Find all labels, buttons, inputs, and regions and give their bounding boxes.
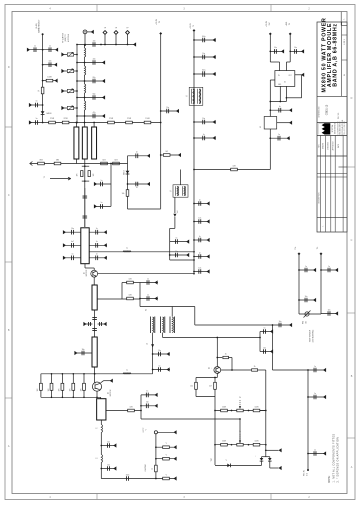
capacitor C30 stub [141, 394, 158, 396]
svg-text:1n: 1n [136, 187, 138, 189]
inductor L5 [123, 251, 131, 252]
wire q1 emitter [93, 277, 95, 285]
svg-text:10n: 10n [166, 107, 169, 109]
wire z6 bottom [94, 367, 96, 374]
resistor R17 [128, 409, 135, 412]
wire u1 bottom pin 2 [285, 86, 287, 101]
supply terminal 4 [289, 33, 292, 36]
capacitor C29 stub [153, 369, 170, 371]
svg-text:1n: 1n [314, 366, 316, 368]
capacitor C14 stub [95, 205, 112, 207]
node dot tr2 [248, 410, 250, 412]
capacitor C33 stub [101, 468, 116, 470]
wire bottom row [30, 122, 77, 124]
svg-text:(ON HEATSINK): (ON HEATSINK) [311, 329, 314, 342]
wire z5 tap [97, 298, 140, 300]
border zone divider right 3 [347, 437, 355, 439]
svg-text:2k: 2k [254, 366, 256, 368]
resistor R24 [252, 369, 258, 371]
svg-text:D: D [351, 97, 353, 100]
svg-text:1n: 1n [199, 236, 201, 238]
svg-text:1n: 1n [278, 134, 280, 136]
ground G6 [29, 120, 32, 124]
svg-text:L4: L4 [147, 343, 149, 345]
wire t1 step [174, 217, 176, 228]
wire q3 base row [221, 369, 252, 371]
wire interstage step down [194, 307, 196, 326]
wire z2 bottom link [84, 159, 86, 227]
title block divider partial [339, 166, 348, 168]
capacitor C44 stub [270, 50, 284, 52]
svg-text:TEMP SENSOR: TEMP SENSOR [310, 329, 312, 342]
wire comb to sense [162, 333, 164, 338]
capacitor C41 stub [170, 254, 189, 256]
wire bias sense [163, 337, 260, 339]
resistor R7 [144, 121, 151, 124]
svg-text:1n: 1n [72, 254, 74, 256]
title block divider row5 [317, 173, 347, 175]
wire tp down [155, 434, 157, 479]
trim pot VR1 [237, 409, 243, 412]
svg-text:DESCRIPTION: DESCRIPTION [318, 192, 320, 204]
capacitor C27 stub [75, 352, 92, 354]
svg-text:10u: 10u [294, 47, 297, 49]
svg-text:10n: 10n [263, 347, 266, 349]
capacitor C43 stub [194, 271, 210, 273]
resistor R18 [156, 446, 177, 448]
svg-text:1n: 1n [101, 180, 103, 182]
wire trim row2 [215, 444, 265, 446]
wire mid link [170, 259, 194, 261]
svg-text:U2: U2 [260, 126, 262, 128]
svg-text:T1: T1 [170, 191, 172, 193]
svg-text:1n: 1n [264, 327, 266, 329]
wire ptt vertical [307, 370, 309, 470]
svg-text:1n: 1n [147, 278, 149, 280]
capacitor C11 stub [128, 155, 151, 157]
svg-text:1n: 1n [279, 106, 281, 108]
capacitor C42 stub [194, 256, 210, 258]
wire u1 bottom pin 1 [279, 86, 281, 101]
svg-text:1n: 1n [147, 294, 149, 296]
capacitor C57 stub [260, 351, 273, 353]
svg-text:10n: 10n [202, 118, 205, 120]
svg-text:10n: 10n [49, 60, 52, 62]
wire bottom bias [215, 464, 262, 466]
capacitor C52 stub [273, 324, 293, 326]
transistor Q2 [92, 382, 101, 391]
wire trim row1 [215, 410, 265, 412]
title block column sheet [341, 22, 343, 96]
svg-text:10n: 10n [198, 267, 201, 269]
test point TP2 [115, 34, 117, 45]
svg-text:1n: 1n [199, 252, 201, 254]
svg-text:1n: 1n [96, 241, 98, 243]
resistor RB2 vertical [51, 374, 53, 384]
svg-text:47p: 47p [93, 112, 96, 114]
resistor R23 [217, 357, 222, 359]
svg-text:(0=B1): (0=B1) [36, 23, 38, 29]
wire connector down [84, 34, 86, 45]
wire clamp gnd stub [266, 449, 279, 451]
PTT terminal [307, 469, 309, 471]
svg-text:270R: 270R [50, 118, 55, 120]
regulator U1 [275, 71, 295, 87]
svg-text:Q2: Q2 [108, 392, 110, 394]
svg-text:CHECKED: CHECKED [328, 141, 330, 150]
ground G7 [133, 42, 136, 46]
inductor L4 [85, 101, 86, 110]
wire q2 source [96, 391, 98, 397]
svg-text:4k7: 4k7 [209, 386, 212, 388]
wire trim row1 right [260, 410, 266, 412]
svg-text:*1: *1 [225, 460, 227, 462]
wire d4 to bias [261, 461, 263, 465]
capacitor C21 stub [140, 282, 158, 284]
wire clamp split [262, 456, 270, 458]
title block divider row1 [317, 95, 347, 97]
capacitor C39 stub [194, 137, 216, 139]
svg-text:RTC IN: RTC IN [304, 470, 306, 476]
wire q1 collector row [98, 273, 194, 275]
wire comb down [152, 333, 154, 374]
capacitor C13 stub [110, 164, 112, 207]
svg-text:L3: L3 [96, 458, 98, 460]
capacitor C36 stub [194, 56, 216, 58]
svg-text:(TX): (TX) [306, 472, 308, 476]
svg-text:TS+: TS+ [295, 246, 297, 249]
svg-text:+13.8V: +13.8V [266, 20, 268, 27]
svg-text:MRF1518: MRF1518 [110, 390, 112, 397]
svg-text:BAND A,B 66-88MHz: BAND A,B 66-88MHz [332, 23, 338, 87]
svg-text:2. * DEPENDS ON APPLICATION: 2. * DEPENDS ON APPLICATION [337, 437, 340, 483]
wire t1 top [180, 170, 182, 185]
ground G4 [55, 79, 58, 83]
wire rail 13V8 [160, 34, 162, 209]
svg-text:1n: 1n [36, 101, 38, 103]
capacitor C53 stub [308, 369, 326, 371]
capacitor C25 stub [84, 323, 92, 325]
svg-text:1uH: 1uH [177, 211, 179, 214]
svg-text:SW: SW [269, 22, 271, 25]
svg-text:RT1: RT1 [303, 321, 305, 324]
wire u1 left pin [270, 79, 275, 81]
capacitor C39d stub [194, 239, 210, 241]
node dot bf [239, 418, 241, 420]
wire alc bottom [273, 369, 309, 371]
svg-text:1u: 1u [126, 248, 128, 250]
capacitor C18b stub [64, 257, 81, 259]
wire row join [76, 122, 84, 124]
svg-text:*1: *1 [165, 455, 167, 457]
node dot row2 [42, 64, 44, 66]
svg-text:10k: 10k [122, 193, 125, 195]
svg-text:100n: 100n [202, 36, 206, 38]
wire q2 feed row [95, 373, 153, 375]
capacitor C20 stub right [89, 244, 107, 246]
resistor R3 [49, 121, 56, 124]
resistor R21 [156, 478, 177, 480]
wire z7 tap [106, 410, 141, 412]
trimmer CV4 [61, 106, 64, 110]
inductor L6 [123, 373, 131, 374]
stripline Z2 [82, 127, 87, 159]
resistor R13 [54, 162, 61, 165]
capacitor C32 stub [101, 445, 116, 447]
capacitor C5 [36, 120, 38, 125]
wire z1 bottom link [75, 159, 77, 164]
svg-text:MRF1535: MRF1535 [86, 270, 88, 277]
connector gnd stub [87, 31, 93, 33]
wire bottom row right [85, 122, 161, 124]
resistor R10 [113, 162, 120, 165]
border zone divider left 1 [5, 126, 12, 128]
svg-text:+13.8V: +13.8V [156, 18, 158, 25]
capacitor C23 series [92, 318, 97, 320]
svg-text:270R: 270R [63, 118, 68, 120]
IC U2 [264, 117, 277, 130]
svg-text:TS-: TS- [317, 246, 319, 249]
node dot tr4 [248, 444, 250, 446]
svg-text:12 MORRISON RD: 12 MORRISON RD [337, 121, 339, 135]
wire input row [30, 163, 128, 165]
attenuator pad top bus [82, 165, 89, 167]
svg-text:Q1: Q1 [83, 272, 85, 274]
svg-text:1n: 1n [159, 365, 161, 367]
capacitor C6a [93, 42, 95, 47]
transistor Q3 [214, 367, 221, 374]
svg-text:150R: 150R [145, 118, 150, 120]
node dot tr1 [231, 410, 233, 412]
resistor RB4 vertical [72, 374, 74, 384]
band select terminal [42, 33, 44, 35]
svg-text:C: C [8, 194, 10, 197]
wire loop down [214, 397, 216, 411]
svg-text:* CRT: * CRT [211, 458, 213, 462]
svg-text:10u: 10u [274, 47, 277, 49]
capacitor C26 stub [98, 323, 106, 325]
stripline Z3 [92, 127, 97, 159]
wire detector bottom [128, 208, 161, 210]
wire alc vertical [272, 325, 274, 370]
svg-text:1n: 1n [96, 254, 98, 256]
node dot tr3 [231, 444, 233, 446]
svg-text:1n: 1n [305, 266, 307, 268]
stripline Z1 [75, 123, 77, 128]
svg-text:10n: 10n [279, 321, 282, 323]
wire u1 gnd right [295, 74, 304, 76]
svg-text:IN: IN [278, 75, 280, 77]
trimmer CV2 [61, 69, 64, 73]
capacitor C24 series [92, 329, 97, 331]
capacitor C56 stub [260, 331, 273, 333]
title block divider row7 [317, 217, 347, 219]
resistor R22 [231, 168, 238, 171]
stripline Z4 [81, 228, 89, 264]
wire rail2 [193, 31, 195, 274]
svg-text:1k: 1k [151, 468, 153, 470]
RF test point [154, 431, 157, 434]
wire q2 gate [94, 374, 96, 383]
resistor R14a [81, 171, 83, 177]
svg-text:1k: 1k [38, 90, 40, 92]
wire bias feed down [239, 419, 241, 445]
svg-text:10n: 10n [305, 296, 308, 298]
node dot sense [259, 337, 261, 339]
supply terminal 3 [269, 33, 272, 36]
wire sense caps vertical [259, 332, 261, 352]
svg-text:REV 1.0: REV 1.0 [338, 113, 340, 119]
transformer T2 [189, 87, 203, 105]
capacitor C55 stub [308, 453, 326, 455]
trim pot VR2 [237, 443, 243, 446]
wire ts1 [298, 254, 300, 314]
border zone divider bottom [96, 494, 98, 500]
capacitor C40 stub [170, 241, 189, 243]
resistor R15 [127, 281, 134, 284]
resistor R30 [253, 443, 260, 446]
inductor L2 [85, 66, 86, 75]
resistor RB3 vertical [61, 374, 63, 384]
svg-text:270R: 270R [109, 118, 114, 120]
wire clamp vertical [265, 445, 267, 457]
svg-text:+9V6: +9V6 [286, 22, 288, 26]
svg-text:1n: 1n [203, 134, 205, 136]
svg-text:10n: 10n [107, 464, 110, 466]
border zone divider top [96, 5, 98, 12]
input arrow [30, 162, 33, 166]
RF output connector J1 [83, 30, 87, 34]
inductor L3 [85, 84, 86, 93]
svg-text:Q3: Q3 [209, 367, 211, 369]
title block divider row3 [317, 135, 347, 137]
logo [319, 123, 331, 134]
node dot alc [272, 324, 274, 326]
svg-text:1n: 1n [101, 202, 103, 204]
title block divider row6 [317, 176, 347, 178]
capacitor C20b stub right [89, 257, 107, 259]
svg-text:270R: 270R [127, 118, 132, 120]
capacitor C16 series [83, 216, 88, 218]
resistor bank top bus [41, 373, 95, 375]
wire t1 bottom arrow [174, 197, 176, 213]
capacitor C4 [36, 103, 38, 108]
transformer T1 [173, 185, 188, 197]
svg-text:1. NOT ALL COMPONENTS FITTED: 1. NOT ALL COMPONENTS FITTED [332, 434, 335, 483]
capacitor C18 stub [64, 244, 81, 246]
node dot z6 [94, 373, 96, 375]
wire u1 gnd bus [270, 101, 286, 103]
capacitor C38 stub [194, 121, 216, 123]
svg-text:1n: 1n [314, 449, 316, 451]
resistor R12 [38, 162, 45, 165]
wire tap up [140, 395, 142, 419]
resistor R27 [221, 409, 228, 412]
wire ts2 [320, 254, 322, 314]
wire output line [84, 45, 86, 49]
svg-text:47p: 47p [93, 40, 96, 42]
wire detector vertical [127, 156, 129, 209]
wire row4 [30, 104, 43, 106]
node dot bottom [42, 122, 44, 124]
svg-text:C: C [351, 239, 353, 242]
svg-text:47p: 47p [93, 58, 96, 60]
transformer T3 winding 2 [160, 317, 164, 334]
ground G1 [27, 48, 30, 52]
wire term3 down [269, 34, 271, 62]
resistor bank bottom bus [41, 396, 101, 398]
wire left rail down [214, 411, 216, 466]
node dot feed [193, 259, 195, 261]
capacitor C54 stub [308, 396, 326, 398]
wire z5 z6 link [94, 310, 96, 337]
zener D5 [268, 458, 272, 461]
capacitor C17 stub [64, 231, 81, 233]
svg-text:C0831-13: C0831-13 [326, 104, 329, 115]
svg-text:(50W) TO: (50W) TO [65, 34, 67, 42]
capacitor C31 stub [141, 405, 158, 407]
inductor L1 [85, 48, 86, 57]
title corner cell [340, 12, 342, 26]
resistor R16 [127, 297, 134, 300]
svg-text:*1: *1 [165, 443, 167, 445]
wire band select vertical [42, 34, 44, 122]
svg-text:4n7: 4n7 [71, 241, 74, 243]
svg-text:U1: U1 [284, 82, 286, 84]
capacitor C12 stub [128, 183, 151, 185]
trimmer CV3 [61, 89, 64, 93]
svg-text:100u: 100u [202, 69, 206, 71]
svg-text:10n: 10n [146, 402, 149, 404]
wire r15 link [122, 282, 127, 284]
capacitor C6 row [77, 62, 105, 64]
wire term4 down [289, 34, 291, 62]
resistor R29 [221, 443, 228, 446]
wire u2 down [269, 129, 271, 170]
svg-text:10k: 10k [190, 386, 193, 388]
capacitor C37 stub [194, 73, 216, 75]
svg-text:10n: 10n [328, 309, 331, 311]
svg-text:OUT: OUT [288, 75, 291, 77]
svg-text:2k: 2k [239, 431, 241, 433]
svg-text:*1: *1 [165, 474, 167, 476]
svg-text:10n: 10n [71, 228, 74, 230]
title block divider row2 [317, 122, 347, 124]
svg-text:1n: 1n [314, 393, 316, 395]
capacitor C15 series [83, 196, 88, 198]
svg-text:1k: 1k [225, 353, 227, 355]
supply terminal +13.8V TX [159, 32, 162, 35]
svg-text:2k: 2k [239, 397, 241, 399]
svg-text:3R3: 3R3 [56, 159, 59, 161]
svg-text:1n: 1n [96, 228, 98, 230]
capacitor C34 series [127, 476, 129, 481]
svg-text:1: 1 [323, 225, 325, 226]
svg-text:10n: 10n [158, 350, 161, 352]
svg-text:L2: L2 [96, 428, 98, 430]
wire r23 right [229, 357, 233, 359]
capacitor C45 stub [290, 50, 304, 52]
capacitor C7 row [77, 80, 105, 82]
resistor R4 [62, 121, 69, 124]
ground G2 [55, 48, 58, 52]
svg-text:TEL +61 9 250 2111: TEL +61 9 250 2111 [344, 121, 346, 135]
wire q3 collector [216, 338, 218, 367]
trimmer CV1 [61, 52, 64, 56]
svg-text:10n: 10n [175, 251, 178, 253]
border zone divider left 3 [5, 397, 12, 399]
wire u2 right gnd [277, 122, 292, 124]
